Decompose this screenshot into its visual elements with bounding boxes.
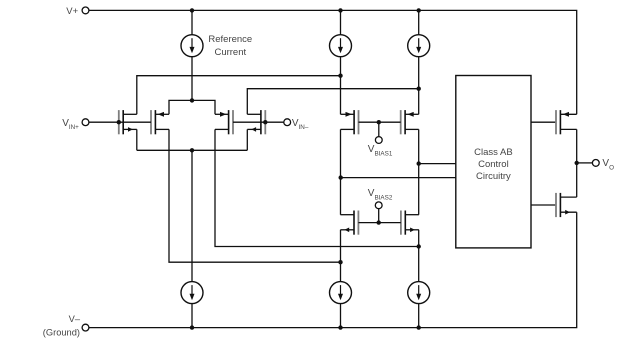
transistor M9 (output PMOS) [555,110,557,134]
wire: tail rail feeding M2/M3 sources [169,100,215,114]
transistor M3 (input PMOS, V_IN- inner) [232,110,234,134]
wire: M2 drain down to left lower branch [169,129,341,262]
svg-text:Reference: Reference [208,34,252,45]
node: M3 drain joins right lower branch [417,244,421,248]
node: left branch tap [339,175,343,179]
wire: left branch M5 drain down to box tap and M7 drain [340,129,342,214]
V_BIAS1 terminal [375,137,382,144]
wire: right branch M6 drain down to box tap and M8 drain [418,129,420,214]
wire: M1 drain up and over to left cascode branch [137,76,341,115]
current source I4 (left branch sink) [330,282,352,304]
transistor M8 (right cascode NMOS) [400,211,402,235]
transistor M7 (left cascode NMOS) [357,211,359,235]
wire: V- rail [89,212,577,327]
current source I6 (input pair tail sink) [181,282,203,304]
node: wire B joins right branch [417,87,421,91]
transistor M10 (output NMOS) [555,193,557,217]
block: Class AB Control Circuitry [456,76,531,248]
node: rail junction below I5 [417,325,421,329]
wire: M1 source down to NMOS tail line [136,129,138,150]
current source I3 (right cascode bias) [418,10,420,34]
wire: M3 drain down to right lower branch [215,129,419,246]
node: rail junction above reference current [190,8,194,12]
wire: I3 to right cascode source [418,57,420,115]
node: M1 gate junction [117,120,121,124]
node: right branch tap [417,161,421,165]
wire: V+ rail [89,10,577,114]
wire: box to output PMOS gate [531,121,556,123]
V_IN+ terminal [82,119,89,126]
wire: M7 source down to bottom current source I4 [340,230,342,282]
wire: M4 source down to NMOS tail line [246,129,248,150]
wire: M9 drain to output node to M10 drain [576,129,578,197]
wire: NMOS pair source line [137,149,248,151]
wire: gate junction to V_BIAS1 terminal [378,122,380,137]
node: output [575,161,579,165]
svg-text:Current: Current [214,47,246,58]
svg-text:V+: V+ [66,6,78,17]
svg-text:V–: V– [69,314,81,324]
node: NMOS pair tail [190,148,194,152]
wire: V_IN- to M3/M4 gates [233,121,284,123]
node: wire A joins left branch [338,74,342,78]
node: rail junction below center current source [190,325,194,329]
svg-text:Control: Control [478,159,509,170]
transistor M5 (left cascode PMOS) [358,110,360,134]
svg-text:Circuitry: Circuitry [476,171,511,182]
V_O terminal [592,160,599,167]
transistor M6 (right cascode PMOS) [400,110,402,134]
node: rail junction above left cascode source [338,8,342,12]
wire: box to output NMOS gate [531,204,556,206]
transistor M2 (input PMOS, V_IN+ inner) [150,110,152,134]
node: rail junction above right cascode source [417,8,421,12]
wire: I2 to left cascode source [340,57,342,115]
current source I5 (right branch sink) [408,282,430,304]
V_IN- terminal [284,119,291,126]
wire: left branch tap to Class AB box [341,177,456,179]
wire: M7-M8 gate tie [358,222,401,224]
wire: M8 source down to bottom current source I5 [418,230,420,282]
node: M2 drain joins left lower branch [338,260,342,264]
wire: reference current to input-pair tail node [191,57,193,101]
wire: right branch tap to Class AB box [419,163,456,165]
svg-text:(Ground): (Ground) [43,328,80,338]
current source I2 (left cascode bias) [340,10,342,34]
wire: M4 drain up and over to right cascode branch [247,89,418,115]
wire: V_IN+ to M1/M2 gates [89,121,151,123]
V- terminal [82,324,89,331]
V+ terminal [82,7,89,14]
current source I_REF (reference current) [181,35,203,57]
node: PMOS input pair tail [190,98,194,102]
wire: output node to V_O terminal [577,162,593,164]
wire: V+ rail to reference current source [191,10,193,34]
node: rail junction below I4 [338,325,342,329]
node: M4 gate junction [263,120,267,124]
transistor M1 (input NMOS, V_IN+ outer) [118,110,120,134]
transistor M4 (input NMOS, V_IN- outer) [264,110,266,134]
wire: M5-M6 gate tie [359,121,401,123]
wire: NMOS tail down to bottom current source [191,150,193,281]
V_BIAS2 terminal [375,202,382,209]
wire: gate junction to V_BIAS2 terminal [378,209,380,223]
svg-text:Class AB: Class AB [474,147,513,158]
node: V_BIAS2 gate junction [377,220,381,224]
node: V_BIAS1 gate junction [377,120,381,124]
